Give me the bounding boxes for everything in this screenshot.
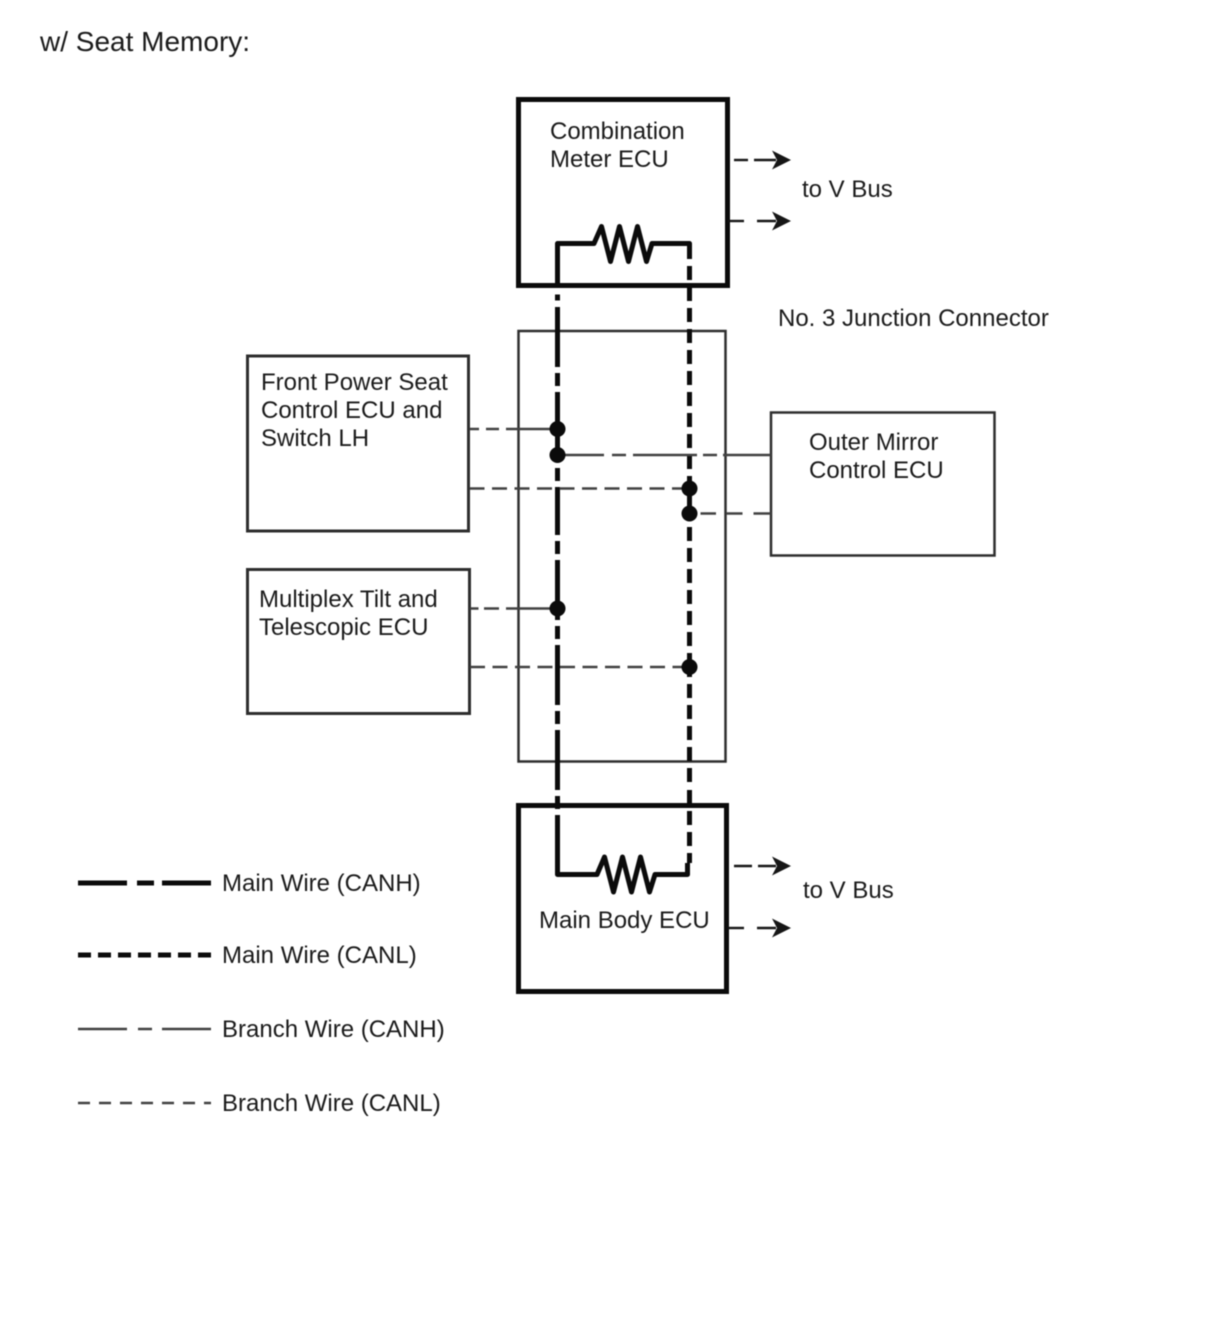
wire branch CANL from Front Power Seat ECU [470,487,690,490]
svg-text:Front Power Seat: Front Power Seat [261,369,448,396]
node junction dot on CANH (Multiplex) [550,601,566,617]
junction connector J1 box [519,331,726,762]
svg-text:to V Bus: to V Bus [803,877,894,904]
svg-text:Outer Mirror: Outer Mirror [809,429,938,456]
node junction dot on CANL (Multiplex) [682,659,698,675]
node junction dot on CANH (Front Power Seat) [550,421,566,437]
svg-text:Branch Wire (CANH): Branch Wire (CANH) [222,1016,445,1043]
svg-text:Main Body ECU: Main Body ECU [539,907,710,934]
wire branch CANH from Front Power Seat ECU [470,428,558,431]
svg-text:to V Bus: to V Bus [802,176,893,203]
wire dashed arrow to V Bus (bottom CANH) [734,857,791,876]
svg-text:w/ Seat Memory:: w/ Seat Memory: [39,26,250,57]
wire dashed arrow to V Bus (top CANL) [728,212,791,231]
svg-text:No. 3 Junction Connector: No. 3 Junction Connector [778,305,1049,332]
legend sample main wire CANL [78,953,211,958]
wire branch CANL from Multiplex Tilt and Telescopic ECU [470,666,690,669]
ECU box U5 Main Body ECU [519,806,727,992]
wire dashed arrow to V Bus (top CANH) [734,151,791,170]
svg-text:Combination: Combination [550,118,685,145]
legend sample branch wire CANH [78,1028,211,1031]
ECU box U3 Multiplex Tilt and Telescopic ECU [248,570,470,714]
node junction dot on CANL (to Outer Mirror) [682,506,698,522]
wire branch CANH to Outer Mirror Control ECU [558,454,772,457]
svg-text:Telescopic ECU: Telescopic ECU [259,614,428,641]
svg-text:Branch Wire (CANL): Branch Wire (CANL) [222,1090,441,1117]
resistor R1 terminating resistor inside Combination Meter ECU [558,227,690,289]
node junction dot on CANL (Front Power Seat) [682,481,698,497]
svg-text:Main Wire (CANL): Main Wire (CANL) [222,942,417,969]
svg-text:Main Wire (CANH): Main Wire (CANH) [222,870,421,897]
svg-text:Control ECU and: Control ECU and [261,397,442,424]
wire dashed arrow to V Bus (bottom CANL) [728,919,791,938]
node junction dot on CANH (to Outer Mirror) [550,447,566,463]
svg-text:Multiplex Tilt and: Multiplex Tilt and [259,586,438,613]
svg-text:Switch LH: Switch LH [261,425,369,452]
wire main CANH vertical [555,295,560,849]
svg-text:Control ECU: Control ECU [809,457,944,484]
svg-text:Meter ECU: Meter ECU [550,146,669,173]
ECU box U2 Front Power Seat Control ECU and Switch LH [248,356,469,531]
legend sample main wire CANH [78,881,211,886]
wire branch CANL to Outer Mirror Control ECU [701,512,772,515]
legend sample branch wire CANL [78,1102,211,1105]
ECU box U1 Combination Meter ECU [519,100,728,286]
resistor R2 terminating resistor inside Main Body ECU [558,848,688,892]
wire main CANL vertical [687,266,692,863]
ECU box U4 Outer Mirror Control ECU [771,413,995,556]
wire branch CANH from Multiplex Tilt and Telescopic ECU [470,607,558,610]
